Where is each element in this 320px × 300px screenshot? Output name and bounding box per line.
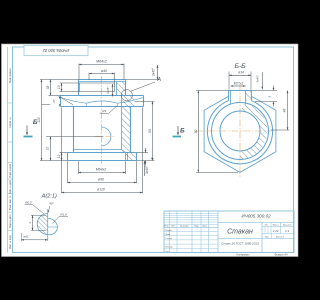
- svg-text:Б-Б: Б-Б: [234, 63, 246, 70]
- svg-text:Подп. и дата: Подп. и дата: [10, 214, 12, 228]
- svg-text:110: 110: [37, 117, 41, 122]
- svg-text:ø110: ø110: [97, 188, 105, 192]
- svg-text:Подп.: Подп.: [194, 226, 200, 228]
- svg-text:Перв. примен.: Перв. примен.: [10, 68, 12, 84]
- svg-text:Листов 1: Листов 1: [276, 236, 285, 238]
- svg-text:Формат А4: Формат А4: [274, 253, 288, 257]
- svg-text:48: 48: [282, 109, 286, 113]
- svg-text:Н.контр.: Н.контр.: [165, 247, 173, 249]
- svg-text:1:1: 1:1: [285, 229, 290, 233]
- svg-text:2,22: 2,22: [272, 229, 279, 233]
- svg-text:А: А: [156, 77, 161, 83]
- svg-text:15: 15: [52, 99, 56, 103]
- svg-text:ø61: ø61: [23, 235, 29, 239]
- svg-text:R3: R3: [102, 109, 106, 113]
- svg-text:М64х2: М64х2: [96, 168, 107, 172]
- svg-text:Инв. № подл.: Инв. № подл.: [9, 234, 12, 249]
- svg-text:Масса: Масса: [273, 225, 280, 227]
- svg-text:R0,5: R0,5: [25, 201, 32, 205]
- svg-text:Сталь 20 ГОСТ 1050-2013: Сталь 20 ГОСТ 1050-2013: [221, 241, 259, 245]
- svg-text:ø40: ø40: [101, 69, 107, 73]
- svg-text:ø90: ø90: [98, 178, 104, 182]
- svg-text:Лист: Лист: [171, 226, 175, 228]
- svg-text:8: 8: [150, 157, 154, 159]
- svg-text:80: 80: [148, 129, 152, 133]
- svg-text:М27х2: М27х2: [234, 82, 244, 86]
- svg-text:№ докум.: № докум.: [180, 225, 189, 228]
- svg-text:Разраб.: Разраб.: [165, 230, 173, 232]
- svg-text:М64х2: М64х2: [96, 60, 107, 64]
- svg-text:12: 12: [57, 155, 61, 159]
- svg-text:3х45°: 3х45°: [256, 74, 260, 83]
- svg-text:Лит.: Лит.: [265, 225, 269, 227]
- svg-text:Утв.: Утв.: [165, 251, 169, 253]
- svg-text:Справ. №: Справ. №: [9, 117, 12, 128]
- svg-text:Б: Б: [33, 119, 38, 126]
- svg-text:Копировал: Копировал: [237, 253, 250, 257]
- svg-text:ИЧ005.300.02: ИЧ005.300.02: [241, 213, 271, 218]
- svg-text:Подп. и дата: Подп. и дата: [10, 163, 12, 177]
- svg-text:ø34: ø34: [238, 71, 244, 75]
- svg-text:R1,6: R1,6: [60, 213, 67, 217]
- svg-text:Пров.: Пров.: [165, 234, 171, 236]
- svg-text:3х45°: 3х45°: [106, 86, 110, 95]
- svg-text:38: 38: [46, 86, 50, 90]
- svg-text:Масштаб: Масштаб: [283, 225, 292, 227]
- svg-text:ИЧ005.300.02: ИЧ005.300.02: [42, 48, 69, 53]
- svg-text:Т.контр.: Т.контр.: [165, 238, 173, 240]
- svg-text:80: 80: [194, 129, 198, 133]
- svg-text:Лист: Лист: [265, 236, 269, 238]
- svg-text:3х45°: 3х45°: [145, 165, 149, 174]
- svg-text:Б: Б: [180, 128, 185, 135]
- svg-text:37: 37: [46, 147, 50, 151]
- svg-text:Взам. инв. №: Взам. инв. №: [9, 195, 12, 210]
- svg-text:Стакан: Стакан: [227, 229, 253, 236]
- svg-text:А(2:1): А(2:1): [41, 194, 57, 200]
- svg-text:10: 10: [57, 85, 61, 89]
- svg-text:45°: 45°: [49, 201, 54, 205]
- svg-text:Инв. № дубл.: Инв. № дубл.: [9, 179, 12, 194]
- svg-text:Изм.: Изм.: [165, 226, 170, 228]
- svg-text:3х45°: 3х45°: [151, 67, 155, 76]
